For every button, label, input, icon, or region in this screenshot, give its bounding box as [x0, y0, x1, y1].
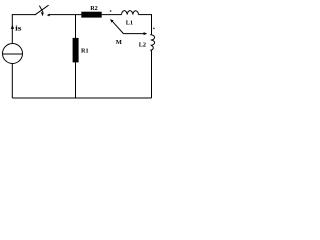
svg-text:R2: R2	[90, 5, 98, 12]
switch S blade	[35, 5, 49, 15]
svg-text:is: is	[15, 24, 22, 32]
switch S actuation arrow line	[39, 6, 43, 13]
wire top-left segment	[12, 14, 36, 16]
switch S actuation arrowhead	[41, 12, 44, 16]
mutual inductance M arrow right arrowhead	[144, 32, 148, 35]
inductor L2 (coil)	[151, 34, 155, 50]
wire right lower segment	[151, 51, 153, 99]
svg-text:L1: L1	[126, 19, 133, 26]
current source horizontal bar	[3, 53, 23, 55]
svg-text:M: M	[116, 39, 122, 46]
current source is (circle)	[3, 44, 23, 64]
wire left lower segment	[11, 64, 13, 99]
inductor L1 (coil)	[122, 11, 139, 15]
switch S right contact arrowhead	[47, 14, 50, 17]
wire middle branch lower segment	[75, 62, 77, 98]
current direction arrowhead (is)	[11, 25, 14, 29]
svg-text:L2: L2	[139, 41, 146, 48]
wire switch-to-R2 segment	[49, 14, 81, 16]
resistor R2 (filled body)	[81, 12, 101, 18]
wire left upper segment	[11, 14, 13, 44]
svg-text:R1: R1	[81, 47, 89, 54]
resistor R1 (filled body)	[73, 38, 79, 63]
mutual inductance M arrow diagonal line	[112, 21, 144, 33]
polarity dot of L1	[110, 10, 112, 12]
wire right upper segment	[151, 14, 153, 34]
mutual inductance M arrow upper arrowhead	[110, 19, 114, 23]
wire R2-to-L1 segment	[102, 14, 122, 16]
polarity dot of L2	[153, 28, 155, 30]
wire bottom segment	[12, 97, 151, 99]
wire middle branch upper segment	[75, 15, 77, 38]
wire L1-to-right-corner segment	[139, 14, 152, 16]
